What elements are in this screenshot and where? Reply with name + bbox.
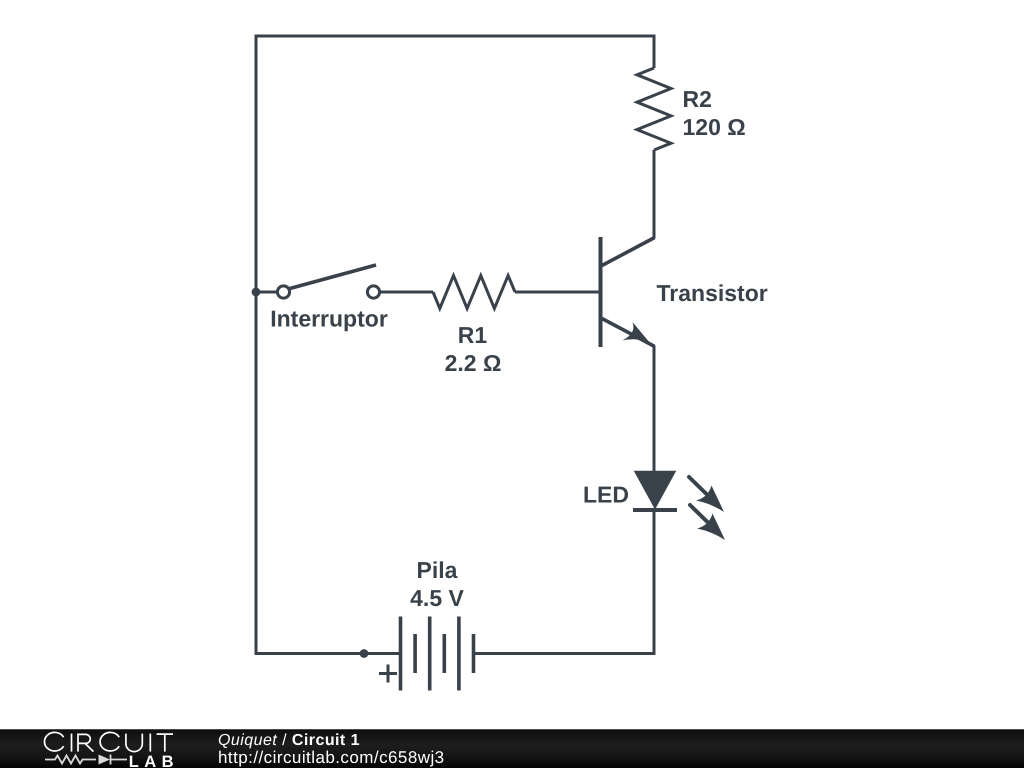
wire: battery to right rail bbox=[474, 652, 656, 655]
LED light arrow 1 bbox=[689, 477, 724, 512]
wire: top rail to R2 bbox=[653, 35, 656, 69]
resistor R1 bbox=[433, 276, 515, 309]
transistor Q1 (NPN) bbox=[601, 237, 655, 347]
svg-text:4.5 V: 4.5 V bbox=[410, 585, 464, 611]
battery V1 (Pila) bbox=[401, 617, 474, 691]
label: Transistor bbox=[657, 280, 768, 306]
svg-text:LED: LED bbox=[583, 482, 629, 508]
resistor R2 bbox=[637, 68, 671, 150]
footer title and url bbox=[218, 732, 445, 767]
logo wordmark CIRCUIT (thin hand-drawn strokes) bbox=[44, 732, 173, 751]
battery plus sign bbox=[379, 665, 397, 683]
wire: bottom rail (left to battery) bbox=[255, 652, 401, 655]
label: Pila 4.5 V bbox=[410, 557, 464, 611]
svg-text:Pila: Pila bbox=[417, 557, 458, 583]
svg-text:120 Ω: 120 Ω bbox=[683, 114, 746, 140]
label: LED bbox=[583, 482, 629, 508]
logo resistor-diode squiggle bbox=[45, 755, 127, 765]
logo wordmark LAB bbox=[129, 753, 179, 768]
LED D1 bbox=[633, 472, 677, 511]
CircuitLab logo bbox=[0, 730, 200, 768]
wire: left rail to switch bbox=[256, 291, 277, 294]
LED light arrow 2 bbox=[690, 505, 725, 540]
svg-text:R2: R2 bbox=[683, 86, 712, 112]
wire: transistor emitter to LED bbox=[653, 346, 656, 472]
label: R1 value bbox=[445, 322, 502, 376]
wire: top rail bbox=[256, 35, 654, 38]
wire: R1 to transistor base bbox=[515, 291, 600, 294]
label: Interruptor bbox=[270, 306, 388, 332]
wire: switch to R1 bbox=[380, 291, 433, 294]
wire: left rail bbox=[255, 35, 258, 654]
wire: R2 to transistor collector bbox=[653, 150, 656, 238]
node: junction dot at battery bbox=[360, 649, 369, 658]
svg-text:Transistor: Transistor bbox=[657, 280, 768, 306]
svg-text:R1: R1 bbox=[458, 322, 488, 348]
switch SW1 Interruptor bbox=[277, 265, 379, 298]
node: junction dot at switch bbox=[252, 288, 261, 297]
svg-text:Interruptor: Interruptor bbox=[270, 306, 388, 332]
svg-text:2.2 Ω: 2.2 Ω bbox=[445, 350, 502, 376]
wire: LED cathode to bottom rail bbox=[653, 510, 656, 655]
label: R2 value bbox=[683, 86, 746, 140]
footer bar bbox=[0, 729, 1024, 768]
svg-text:LAB: LAB bbox=[129, 753, 179, 768]
